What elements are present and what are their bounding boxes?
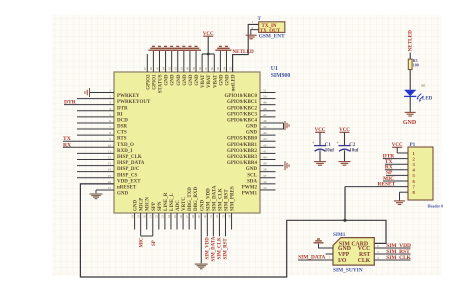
ground at top pin 62 <box>173 49 183 51</box>
svg-text:NETLED: NETLED <box>232 49 254 55</box>
pin 23 LINE_R <box>164 213 166 230</box>
svg-text:GND: GND <box>171 74 176 86</box>
svg-text:GPIO5/KBR0: GPIO5/KBR0 <box>227 137 258 142</box>
svg-text:SPP: SPP <box>152 202 157 211</box>
svg-text:MICP: MICP <box>140 198 145 211</box>
svg-text:30: 30 <box>203 215 207 219</box>
svg-text:DTR: DTR <box>117 106 128 111</box>
ground at top pin 54 <box>221 49 231 51</box>
svg-text:44: 44 <box>263 131 267 135</box>
junction RESET <box>343 219 346 222</box>
ground at top pin 60 <box>185 49 195 51</box>
pin 43 GPIO4/KBR1 <box>260 140 276 142</box>
pin 67 GPIO2 <box>146 54 148 72</box>
pin 45 GND <box>260 128 284 130</box>
svg-text:SIM_DATA: SIM_DATA <box>212 236 217 261</box>
svg-text:34: 34 <box>227 215 231 219</box>
svg-text:TXD_O: TXD_O <box>117 143 134 148</box>
svg-text:51: 51 <box>263 89 267 93</box>
svg-text:LINE_R: LINE_R <box>164 192 169 211</box>
svg-text:GPIO1: GPIO1 <box>152 74 157 90</box>
pin 42 GPIO3/KBR2 <box>260 146 276 148</box>
svg-text:46: 46 <box>263 119 267 123</box>
pin 53 netLED <box>232 55 234 72</box>
svg-text:54: 54 <box>222 67 226 71</box>
pin 30 SIM_VDD <box>206 213 208 236</box>
svg-text:SP: SP <box>152 240 157 246</box>
svg-text:ADC: ADC <box>176 200 181 211</box>
svg-text:4: 4 <box>109 107 111 111</box>
pin 60 GND <box>189 50 191 72</box>
pin 19 MICP <box>140 213 142 236</box>
svg-text:8: 8 <box>109 131 111 135</box>
svg-text:56: 56 <box>210 67 214 71</box>
svg-text:47: 47 <box>263 113 267 117</box>
ground at top pin 59 <box>191 49 201 51</box>
pin 7 CTS <box>77 128 114 130</box>
pin 41 GPIO2/KBR3 <box>260 152 276 154</box>
svg-text:22: 22 <box>155 215 159 219</box>
svg-text:SIM_RST: SIM_RST <box>224 238 229 260</box>
svg-text:27: 27 <box>185 215 189 219</box>
ground at SIM1 GND inverted <box>314 242 324 244</box>
svg-text:SIM_VDD: SIM_VDD <box>206 188 211 211</box>
svg-text:DBG_TXD: DBG_TXD <box>188 187 193 211</box>
svg-text:GND: GND <box>225 74 230 86</box>
pin I/O of SIM1 <box>298 259 333 261</box>
svg-text:41: 41 <box>263 149 267 153</box>
pin 32 SIM_CLK <box>218 213 220 236</box>
svg-text:DBG_RXD: DBG_RXD <box>194 186 199 211</box>
svg-text:16: 16 <box>108 180 112 184</box>
svg-text:DCD: DCD <box>117 118 128 123</box>
wire P1 pin8 to ground <box>399 192 401 200</box>
pin 21 SPP <box>152 213 154 236</box>
svg-text:5: 5 <box>109 113 111 117</box>
svg-text:12: 12 <box>108 155 112 159</box>
svg-text:VDD_EXT: VDD_EXT <box>117 179 141 184</box>
svg-text:LED: LED <box>422 96 433 101</box>
wire VCC to VBAT <box>207 36 209 54</box>
svg-text:43: 43 <box>263 137 267 141</box>
svg-text:GPIO9/KBC1: GPIO9/KBC1 <box>227 100 258 105</box>
svg-text:PWRKEY: PWRKEY <box>117 94 140 99</box>
pin 3 of P1 <box>385 163 408 165</box>
svg-text:GPIO10/KBC0: GPIO10/KBC0 <box>224 94 257 99</box>
pin 28 DBG_RXD <box>194 213 196 230</box>
pin 11 DISP_CLK <box>77 152 114 154</box>
wire RESET from P1 pin7 <box>344 187 346 221</box>
svg-text:SIM_RST: SIM_RST <box>225 189 230 211</box>
svg-text:GND: GND <box>134 200 139 212</box>
svg-text:GPIO1/KBR4: GPIO1/KBR4 <box>227 161 258 166</box>
svg-text:11: 11 <box>108 149 112 153</box>
pin SIM_CLK wire of SIM1 <box>374 259 410 261</box>
ground at pins 46 45 <box>284 121 286 130</box>
pin 44 GPIO5/KBR0 <box>260 134 276 136</box>
pin 36 PWM2 <box>260 183 276 185</box>
svg-text:10: 10 <box>108 143 112 147</box>
svg-text:PWRKEYOUT: PWRKEYOUT <box>117 100 151 105</box>
svg-text:2: 2 <box>109 95 111 99</box>
wire netLED to NETLED label and TX_IN <box>233 24 259 72</box>
svg-text:Header 8: Header 8 <box>428 204 444 209</box>
pin 50 GPIO9/KBC1 <box>260 98 276 100</box>
svg-text:MIC: MIC <box>140 237 145 248</box>
svg-text:I/O: I/O <box>338 258 347 264</box>
pin 62 GND <box>177 50 179 72</box>
pin 59 GND <box>195 50 197 72</box>
svg-text:61: 61 <box>180 67 184 71</box>
pin 57 VBAT <box>207 54 209 72</box>
svg-text:17: 17 <box>108 186 112 190</box>
pin 49 GPIO8/KBC2 <box>260 104 276 106</box>
svg-text:RTS: RTS <box>117 137 127 142</box>
svg-text:GPIO8/KBC2: GPIO8/KBC2 <box>227 106 258 111</box>
svg-text:DISP_DATA: DISP_DATA <box>117 161 145 166</box>
ground at top pin 66 <box>148 49 158 51</box>
svg-text:31: 31 <box>209 215 213 219</box>
wire joining VBAT pins <box>202 53 214 55</box>
pin 2 of P1 <box>383 158 408 160</box>
wire TX_OUT to ground <box>251 30 259 35</box>
pin 7 of P1 <box>345 186 408 188</box>
svg-text:GND: GND <box>189 74 194 86</box>
ground at TX_OUT <box>246 34 257 36</box>
svg-text:28: 28 <box>191 215 195 219</box>
svg-text:SIM_DATA: SIM_DATA <box>298 254 325 260</box>
svg-text:RXD_I: RXD_I <box>117 149 132 154</box>
svg-text:NETLED: NETLED <box>408 30 414 52</box>
svg-text:+: + <box>312 140 315 145</box>
svg-text:40: 40 <box>263 155 267 159</box>
svg-text:VRTC: VRTC <box>182 197 187 211</box>
pin 1 of P1 <box>397 152 408 154</box>
pin GND of SIM1 <box>319 244 334 248</box>
ground at pin 39 <box>284 161 286 170</box>
wire nRESET long run <box>80 184 386 277</box>
op-amp U1 SIM900 body <box>114 72 260 213</box>
svg-text:STATUS: STATUS <box>158 74 163 93</box>
svg-text:3: 3 <box>109 101 111 105</box>
svg-text:SIM_PRES: SIM_PRES <box>231 186 236 211</box>
pin 5 of P1 <box>386 174 408 176</box>
svg-text:DISP_CLK: DISP_CLK <box>117 155 142 160</box>
ground at top pin 64 <box>161 49 171 51</box>
svg-text:21: 21 <box>149 215 153 219</box>
svg-text:RI: RI <box>117 112 123 117</box>
svg-text:MICN: MICN <box>146 197 151 211</box>
diode LED <box>404 90 416 96</box>
svg-text:SIM_CLK: SIM_CLK <box>218 188 223 211</box>
ground at top pin 55 <box>215 49 225 51</box>
pin 25 ADC <box>176 213 178 230</box>
pin 16 nRESET <box>80 183 114 185</box>
svg-text:GND: GND <box>117 192 129 197</box>
pin 8 RTS <box>77 134 114 136</box>
ground at top pin 61 <box>179 49 189 51</box>
svg-text:SCL: SCL <box>247 173 257 178</box>
svg-text:32: 32 <box>215 215 219 219</box>
svg-text:CTS: CTS <box>117 131 127 136</box>
svg-text:66: 66 <box>149 67 153 71</box>
svg-text:29: 29 <box>197 215 201 219</box>
svg-text:U1: U1 <box>271 66 278 72</box>
svg-text:67: 67 <box>143 67 147 71</box>
ground at pin 1 PWRKEY <box>89 88 91 97</box>
resistor R5 <box>408 59 412 70</box>
svg-text:C1: C1 <box>325 143 332 148</box>
svg-text:DISP_D/C: DISP_D/C <box>117 167 140 172</box>
svg-text:C2: C2 <box>349 143 356 148</box>
pin 15 VDD_EXT <box>77 177 114 179</box>
svg-text:25: 25 <box>173 215 177 219</box>
pin 31 SIM_DATA <box>212 213 214 236</box>
svg-text:SIM_CLK: SIM_CLK <box>386 255 411 261</box>
svg-text:netLED: netLED <box>232 74 237 91</box>
svg-text:19: 19 <box>136 215 140 219</box>
pin 5 DCD <box>77 116 114 118</box>
svg-text:13: 13 <box>108 162 112 166</box>
svg-text:33: 33 <box>221 215 225 219</box>
pin 18 GND <box>134 213 136 230</box>
svg-text:65: 65 <box>155 67 159 71</box>
svg-text:6: 6 <box>109 119 111 123</box>
svg-text:62: 62 <box>174 67 178 71</box>
svg-text:GND: GND <box>177 74 182 86</box>
svg-text:SDA: SDA <box>247 179 257 184</box>
pin 24 LINE_L <box>170 213 172 230</box>
pin SIM_VDD wire of SIM1 <box>374 247 410 249</box>
svg-text:LINE_L: LINE_L <box>170 192 175 211</box>
pin 40 GPIO1/KBR4 <box>260 158 276 160</box>
pin 54 GND <box>225 50 227 72</box>
ground at pin 17 <box>90 193 103 194</box>
pin 48 GPIO7/KBC3 <box>260 110 276 112</box>
pin 39 GND <box>260 165 284 167</box>
pin SIM_RST wire of SIM1 <box>374 253 410 255</box>
pin 66 GPIO1 <box>152 50 154 72</box>
wire C2 to ground <box>344 150 346 161</box>
pin 2 PWRKEYOUT <box>77 98 114 100</box>
wire NETLED to R5 <box>409 53 411 60</box>
svg-text:37: 37 <box>263 174 267 178</box>
svg-text:R5: R5 <box>413 59 418 63</box>
svg-text:50: 50 <box>263 95 267 99</box>
pin 26 VRTC <box>182 213 184 230</box>
svg-text:DSR: DSR <box>117 125 127 130</box>
svg-text:GND: GND <box>200 200 205 212</box>
ground at top pin 65 <box>154 49 164 51</box>
ground at P1 pin8 <box>394 200 405 202</box>
svg-text:RX: RX <box>63 142 71 148</box>
ground below C1 <box>314 161 326 163</box>
pin 10 RXD_I <box>63 146 114 148</box>
svg-text:VBAT: VBAT <box>207 74 212 88</box>
pin 63 GND <box>171 50 173 72</box>
svg-text:14: 14 <box>108 168 112 172</box>
svg-text:DISP_CS: DISP_CS <box>117 173 138 178</box>
svg-text:SIM_CLK: SIM_CLK <box>218 237 223 259</box>
svg-text:20: 20 <box>143 215 147 219</box>
wire pin17 GND to ground <box>95 190 97 193</box>
pin 27 DBG_TXD <box>188 213 190 230</box>
wire LED to ground <box>409 96 411 112</box>
svg-text:1: 1 <box>252 20 254 24</box>
pin 34 SIM_PRES <box>231 213 233 230</box>
pin 64 GND <box>165 50 167 72</box>
wire R5 to LED <box>409 70 411 90</box>
svg-text:GPIO2: GPIO2 <box>146 74 151 90</box>
ground at pin 29 <box>195 264 208 265</box>
pin 56 VBAT <box>213 54 215 72</box>
svg-text:15: 15 <box>108 174 112 178</box>
pin 61 GND <box>183 50 185 72</box>
svg-text:39: 39 <box>263 162 267 166</box>
svg-text:48: 48 <box>263 107 267 111</box>
svg-text:SIM_VDD: SIM_VDD <box>206 237 211 260</box>
pin 35 PWM1 <box>260 189 276 191</box>
svg-text:net: net <box>421 83 425 87</box>
svg-text:GPIO4/KBR1: GPIO4/KBR1 <box>227 143 258 148</box>
svg-text:P1: P1 <box>410 142 416 148</box>
connector P1 Header 8 body <box>408 147 433 200</box>
svg-text:+: + <box>337 140 340 145</box>
svg-text:53: 53 <box>228 67 232 71</box>
wire C1 to ground <box>319 150 321 161</box>
pin VPP of SIM1 <box>326 253 334 255</box>
pin 37 SDA <box>260 177 276 179</box>
svg-text:64: 64 <box>161 67 165 71</box>
svg-text:7: 7 <box>109 125 111 129</box>
svg-text:GPIO3/KBR2: GPIO3/KBR2 <box>227 149 258 154</box>
svg-text:100: 100 <box>413 63 419 67</box>
pin 33 SIM_RST <box>225 213 227 236</box>
svg-text:23: 23 <box>161 215 165 219</box>
pin 6 of P1 <box>383 180 408 182</box>
svg-text:18: 18 <box>130 215 134 219</box>
svg-text:55: 55 <box>216 67 220 71</box>
pin 17 GND <box>96 189 114 191</box>
svg-text:57: 57 <box>204 67 208 71</box>
pin 9 TXD_O <box>63 140 114 142</box>
svg-text:PWM1: PWM1 <box>242 192 258 197</box>
pin 29 GND <box>200 213 202 263</box>
wire MIC SP bridge <box>141 235 153 237</box>
pin 1 PWRKEY <box>90 92 114 94</box>
svg-text:GND: GND <box>246 125 258 130</box>
pin 8 of P1 <box>400 191 409 193</box>
svg-text:SPN: SPN <box>158 201 163 211</box>
svg-text:GND: GND <box>403 120 417 126</box>
svg-text:9: 9 <box>109 137 111 141</box>
pin 6 DSR <box>77 122 114 124</box>
pin 65 STATUS <box>158 50 160 72</box>
svg-text:10uf: 10uf <box>349 148 359 153</box>
svg-text:58: 58 <box>198 67 202 71</box>
pin 46 GND <box>260 122 284 124</box>
svg-text:CLK: CLK <box>358 258 371 264</box>
pin 51 GPIO10/KBC0 <box>260 92 276 94</box>
svg-text:GND: GND <box>246 131 258 136</box>
junction VBAT/VCC <box>207 53 210 56</box>
pin 22 SPN <box>158 213 160 230</box>
svg-text:DTR: DTR <box>64 100 77 106</box>
pin 47 GPIO6/KBC4 <box>260 116 276 118</box>
pin 3 DTR <box>64 104 114 106</box>
sheet background <box>52 15 441 276</box>
svg-text:49: 49 <box>263 101 267 105</box>
connector SIM1 SIM CARD body <box>333 238 374 266</box>
pin 20 MICN <box>146 213 148 230</box>
svg-text:GND: GND <box>195 74 200 86</box>
pin 38 SCL <box>260 171 276 173</box>
pin 12 DISP_DATA <box>77 158 114 160</box>
pin 4 of P1 <box>385 169 408 171</box>
svg-text:45: 45 <box>263 125 267 129</box>
pin 4 RI <box>77 110 114 112</box>
ground below C2 <box>338 161 350 163</box>
svg-text:GPIO7/KBC3: GPIO7/KBC3 <box>227 112 258 117</box>
svg-text:GND: GND <box>165 74 170 86</box>
svg-text:nRESET: nRESET <box>117 185 137 190</box>
pin 14 DISP_CS <box>77 171 114 173</box>
svg-text:35: 35 <box>263 186 267 190</box>
svg-text:SIM_DATA: SIM_DATA <box>212 185 217 211</box>
svg-text:36: 36 <box>263 180 267 184</box>
svg-text:SIM900: SIM900 <box>271 73 291 79</box>
svg-text:GSM_ENT: GSM_ENT <box>259 34 285 40</box>
svg-text:GND: GND <box>183 74 188 86</box>
ground at top pin 63 <box>167 49 177 51</box>
antenna GSM_ANT body <box>259 22 285 33</box>
svg-text:VBAT: VBAT <box>201 74 206 88</box>
pin 55 GND <box>219 50 221 72</box>
pin 13 DISP_D/C <box>77 165 114 167</box>
svg-text:38: 38 <box>263 168 267 172</box>
svg-text:SIM_SUYIN: SIM_SUYIN <box>333 268 363 274</box>
svg-text:1: 1 <box>109 89 111 93</box>
svg-text:63: 63 <box>167 67 171 71</box>
svg-text:GND: GND <box>219 74 224 86</box>
svg-text:60: 60 <box>186 67 190 71</box>
svg-text:PWM2: PWM2 <box>242 185 258 190</box>
ground below LED <box>405 111 416 113</box>
svg-text:42: 42 <box>263 143 267 147</box>
svg-text:SIM1: SIM1 <box>333 232 346 238</box>
svg-text:VBAT: VBAT <box>213 74 218 88</box>
svg-text:RESET: RESET <box>378 181 396 187</box>
pin 58 VBAT <box>201 54 203 72</box>
svg-text:10uf: 10uf <box>325 148 335 153</box>
svg-text:TX: TX <box>63 136 71 142</box>
svg-text:24: 24 <box>167 215 171 219</box>
svg-text:26: 26 <box>179 215 183 219</box>
wire joining GND pins 46 45 <box>283 123 285 129</box>
svg-text:GND: GND <box>246 167 258 172</box>
svg-text:GPIO2/KBR3: GPIO2/KBR3 <box>227 155 258 160</box>
svg-text:GPIO6/KBC4: GPIO6/KBC4 <box>227 118 258 123</box>
svg-text:59: 59 <box>192 67 196 71</box>
